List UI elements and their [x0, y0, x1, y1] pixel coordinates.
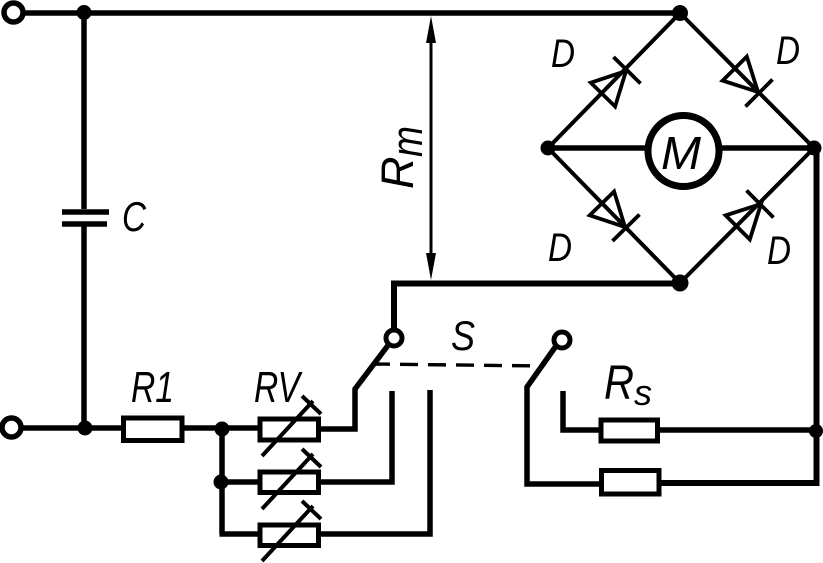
- diode D bottom-right: [726, 191, 774, 240]
- wire Rs row1 right to rail: [660, 427, 816, 433]
- svg-text:D: D: [551, 32, 575, 76]
- svg-text:D: D: [767, 229, 791, 273]
- terminal bottom-left: [2, 418, 21, 437]
- wire RV row2 left stub: [222, 479, 258, 485]
- svg-text:C: C: [122, 193, 147, 240]
- svg-text:D: D: [548, 226, 572, 270]
- switch S pole left: [386, 330, 402, 346]
- junction bridge right: [807, 141, 822, 156]
- label Rm: [372, 126, 432, 189]
- junction Rs rail node: [809, 424, 823, 438]
- motor M: [648, 116, 719, 187]
- junction bridge bottom: [672, 275, 689, 292]
- wire bridge arm top-left: [548, 13, 680, 148]
- resistor RV row1: [260, 396, 321, 456]
- junction bridge top: [672, 5, 688, 21]
- wire bridge arm bottom-left: [548, 148, 680, 283]
- wire R1 to RV node: [184, 425, 258, 431]
- svg-text:RV: RV: [254, 363, 303, 412]
- wire RV left vertical bus: [219, 428, 225, 534]
- junction bridge left: [541, 141, 556, 156]
- wire RV row3 left stub: [220, 531, 259, 537]
- junction top capacitor node: [77, 5, 92, 20]
- resistor Rs row2: [602, 471, 660, 495]
- wire bridge middle: [548, 145, 814, 151]
- resistor RV row2: [260, 449, 321, 509]
- junction node after R1: [215, 422, 230, 437]
- switch S pole right: [554, 332, 570, 348]
- resistor RV row3: [260, 501, 321, 561]
- wire bottom-left rail: [20, 425, 121, 431]
- wire bridge bottom to switch pole: [394, 284, 680, 330]
- wire bridge arm bottom-right: [680, 148, 814, 283]
- junction RV row2 node: [214, 475, 229, 490]
- terminal top-left: [4, 3, 23, 22]
- diode D bottom-left: [590, 192, 640, 242]
- wire right rail: [660, 148, 817, 483]
- svg-text:R: R: [604, 357, 634, 410]
- diode D top-right: [723, 57, 773, 107]
- wire capacitor branch lower: [81, 224, 87, 428]
- svg-text:R: R: [372, 157, 423, 190]
- capacitor C: [62, 212, 109, 224]
- wire Rs row1 left stub: [563, 391, 603, 430]
- dimension arrow Rm: [426, 16, 436, 280]
- wire RV row2 right to open contact: [320, 391, 392, 482]
- wire bridge arm top-right: [680, 13, 814, 148]
- svg-text:R1: R1: [131, 363, 174, 412]
- wire RV row3 right to open contact: [320, 390, 430, 534]
- resistor R1: [124, 418, 183, 441]
- svg-text:m: m: [383, 126, 432, 157]
- wire top rail: [22, 10, 680, 16]
- label Rs: [604, 357, 652, 413]
- svg-text:M: M: [661, 127, 702, 179]
- svg-text:D: D: [776, 29, 800, 73]
- wire RV row1 right to switch lever: [320, 344, 389, 429]
- diode D top-left: [591, 57, 641, 107]
- junction bottom capacitor node: [78, 421, 93, 436]
- resistor Rs row1: [601, 420, 658, 441]
- svg-text:S: S: [451, 312, 475, 359]
- switch S coupling dashed link: [372, 364, 543, 366]
- svg-text:s: s: [634, 372, 652, 413]
- wire capacitor branch upper: [81, 13, 87, 209]
- wire switch S right lever: [527, 346, 599, 484]
